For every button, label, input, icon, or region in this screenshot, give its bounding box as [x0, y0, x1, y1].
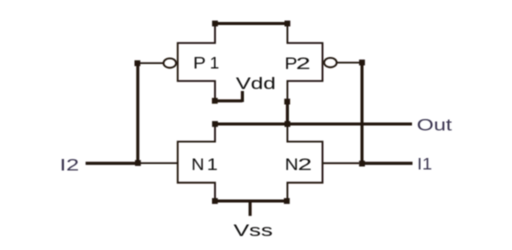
svg-text:P: P [193, 54, 206, 73]
svg-text:I1: I1 [417, 155, 432, 174]
svg-text:I2: I2 [60, 156, 79, 175]
svg-text:N: N [191, 154, 204, 174]
svg-text:Out: Out [417, 115, 452, 134]
svg-text:N: N [285, 155, 299, 174]
svg-text:1: 1 [210, 54, 219, 73]
svg-text:Vss: Vss [234, 221, 273, 240]
svg-text:2: 2 [296, 53, 311, 72]
svg-text:Vdd: Vdd [236, 74, 276, 93]
svg-text:2: 2 [298, 154, 312, 174]
svg-text:1: 1 [207, 154, 218, 173]
